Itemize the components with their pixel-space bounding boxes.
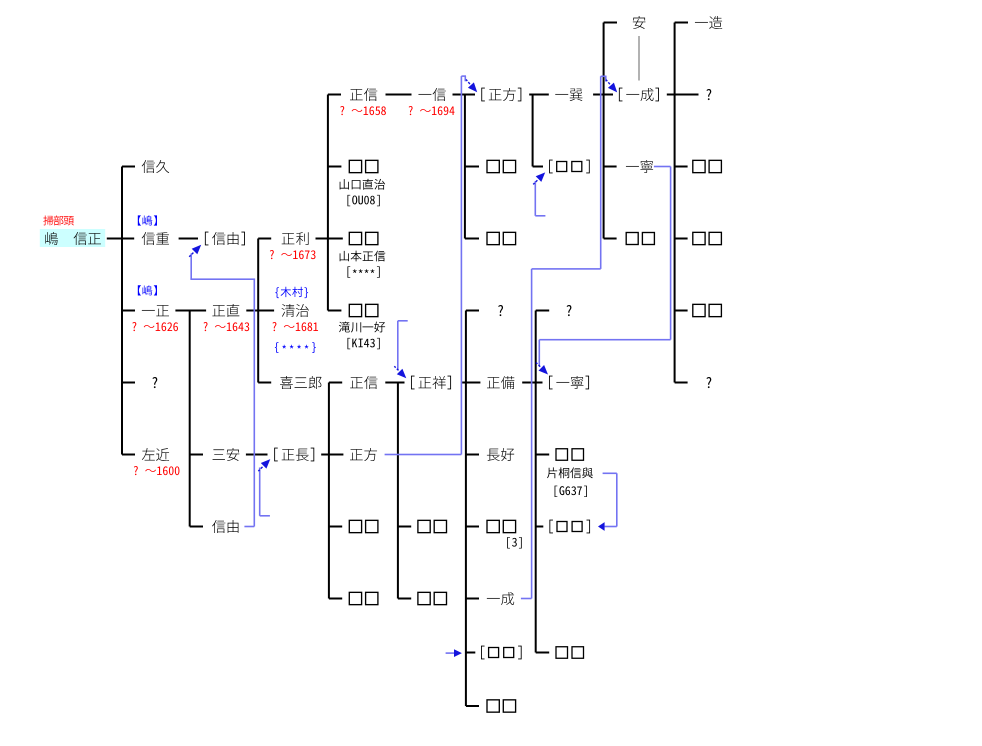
person □□ (c10 C) (693, 160, 705, 172)
tick 安 (604, 22, 617, 24)
person □□ (wife 山本正信) (349, 232, 361, 244)
person 一巽 (555, 93, 568, 96)
adoption link 一成→〔一成〕 stub (521, 598, 532, 600)
adoption link 信由→〔信由〕 stub (244, 526, 254, 528)
tick □□ c5 I (329, 598, 342, 600)
wire 正備-〔一寧〕 (522, 382, 542, 384)
adoption link 片桐→〔□□〕c8H crossbar (605, 526, 617, 528)
code [3] (507, 537, 510, 548)
person 〔正方〕 (adopted) (481, 88, 485, 102)
person 左近 (142, 448, 155, 461)
person □□ (c7 C) (487, 160, 499, 172)
person □□ (c10 D) (693, 232, 705, 244)
wire 一巽-〔一成〕 (593, 94, 613, 96)
person 正備 (487, 377, 500, 388)
tick 正信F (329, 382, 342, 384)
wire 正信-〔正祥〕 (385, 382, 404, 384)
tick 一正 (122, 310, 135, 312)
wire 安-〔一成〕 (gray) (638, 36, 639, 81)
person ? (c2) (152, 377, 157, 388)
tick 〔□□〕C8 (533, 166, 543, 168)
adoption link 一成→〔一成〕 riser (531, 269, 533, 599)
tick 左近 (122, 454, 135, 456)
person □□ (wife 山口直治) (349, 160, 361, 172)
tick □□ c10 E (675, 310, 688, 312)
person 〔一寧〕 (adopted) (549, 376, 553, 390)
code [KI43] (347, 338, 350, 349)
tick 〔□□〕J (466, 652, 475, 654)
adoption link into 〔□□〕c8C riser (535, 181, 537, 216)
wire 正利-□□ (316, 238, 343, 240)
person 信久 (142, 160, 155, 173)
person ? (c8) (567, 305, 572, 316)
wire 〔正長〕-正方 (321, 454, 343, 456)
wire 一正-正直 (175, 310, 206, 312)
person 長好 (487, 449, 500, 461)
person □□ (wife 滝川一好) (349, 304, 361, 316)
adoption arrow into 〔信由〕 (192, 245, 202, 255)
person 一寧 (626, 165, 639, 168)
tick □□ c8 J (536, 652, 550, 654)
sibling bracket V1 (121, 167, 123, 455)
children bracket V5 of 喜三郎 (328, 383, 330, 599)
person 信由 (212, 520, 225, 533)
tick □□ c10 C (675, 166, 688, 168)
children bracket V8 of 〔正祥〕 (465, 311, 467, 707)
person 清治 (282, 304, 295, 317)
date 一信 ?~1694 (red) (409, 106, 413, 115)
tick □□ c7 K (466, 705, 479, 707)
tick 〔□□〕H8 (536, 526, 544, 528)
children bracket V10 of 一巽 (532, 95, 534, 167)
wire 〔正方〕-一巽 (529, 94, 549, 96)
adoption link into 〔□□〕c8C stub (535, 215, 545, 217)
adoption link 正方→〔正方〕 top (461, 75, 466, 77)
adoption link 信由→〔信由〕 riser (254, 280, 256, 527)
person □□ (c6 I) (418, 592, 430, 604)
person □□ (c5 H) (349, 520, 361, 532)
wire 信重-〔信由〕 (179, 238, 198, 240)
date 正直 ?~1643 (red) (204, 322, 208, 331)
date 清治 ?~1681 (red) (272, 322, 276, 331)
person ? (c7) (498, 305, 503, 316)
person □□ (c6 H) (418, 520, 430, 532)
adoption link into 〔正長〕 stub (260, 515, 270, 517)
person 正直 (212, 305, 225, 316)
adoption link 片桐→〔□□〕c8H dropper (616, 473, 618, 526)
person 〔一成〕 (adopted) (619, 88, 623, 102)
label {木村} over 清治 (blue) (275, 287, 279, 298)
person 正信 (gen5 mid) (350, 377, 363, 388)
person 〔信由〕 (adopted) (205, 232, 209, 246)
adoption arrow into 〔一寧〕 (539, 365, 549, 375)
person 喜三郎 (280, 376, 293, 389)
person 嶋 信正 highlight box (40, 229, 105, 247)
adoption link 信由→〔信由〕 riser2 (190, 254, 192, 280)
wire 正信-一信 (386, 94, 412, 96)
adoption link 一寧→〔一寧〕 dropper (670, 167, 672, 340)
code [G637] (555, 486, 558, 497)
children bracket V3 of 〔信由〕 (257, 239, 259, 383)
person □□ (wife 片桐信與) (556, 449, 568, 461)
person □□ (c9 D) (626, 233, 638, 245)
children bracket V6 of 正信 (397, 383, 399, 599)
tick 一成 (466, 598, 479, 600)
date 一正 ?~1626 (red) (132, 322, 136, 331)
person 正信 (gen5 top) (350, 89, 363, 100)
tick ? c8 (536, 310, 550, 312)
adoption link 正方→〔正方〕 riser (461, 76, 463, 454)
tick □□ c7 C (465, 166, 479, 168)
adoption arrow into 〔正長〕 (261, 459, 271, 469)
adoption link 一成→〔一成〕 top (601, 76, 607, 78)
person □□ (c7 D) (487, 232, 499, 244)
person 正方 (350, 449, 363, 460)
tick □□ c10 D (675, 238, 688, 240)
tick □□ c6 H (398, 526, 411, 528)
person □□ (c8 J) (556, 647, 568, 659)
tick □□ c5 H (329, 526, 342, 528)
adoption link 一寧→〔一寧〕 dropper2 (539, 340, 541, 367)
tick 信久 (122, 166, 135, 168)
wire 正直-清治 (246, 310, 274, 312)
person ? (c10 B) (706, 89, 711, 100)
note 山口直治 (340, 179, 349, 189)
tick 喜三郎 (258, 382, 271, 384)
tick □□ c6 I (398, 598, 411, 600)
adoption arrow into 〔□□〕c8C (536, 172, 546, 182)
adoption link into 〔正長〕 riser (259, 468, 261, 516)
children bracket V9 of ? (c7) (535, 311, 537, 653)
wire 〔一成〕-? (667, 94, 699, 96)
person 一信 (418, 93, 431, 96)
person 〔□□〕 (c8 C adopted) (549, 160, 553, 174)
tick □□ c7 D (465, 238, 479, 240)
adoption link 一成→〔一成〕 jog (605, 76, 607, 81)
adoption link 一寧→〔一寧〕 crossbar (539, 339, 670, 341)
adoption arrow into 〔正祥〕 (397, 369, 407, 379)
title 掃部頭 (red) (43, 215, 53, 225)
date 正信 ?~1658 (red) (340, 106, 344, 115)
person 一正 (142, 309, 155, 312)
adoption link 一寧→〔一寧〕 stub (654, 166, 671, 168)
person 信重 (142, 232, 155, 245)
adoption arrow into 〔□□〕c7J (right) (454, 649, 462, 657)
note 片桐信與 (547, 467, 557, 478)
tick 正利 (258, 238, 271, 240)
tick 信由 (190, 526, 203, 528)
tick 正信B (328, 94, 341, 96)
adoption arrow into 〔正方〕 (468, 82, 477, 92)
person □□ (c10 E) (693, 304, 705, 316)
wire 一信-〔正方〕 (453, 94, 476, 96)
adoption link 片桐→〔□□〕c8H stub (603, 473, 617, 475)
person 〔□□〕 (c8 H adopted) (549, 520, 553, 534)
adoption link 一成→〔一成〕 crossbar (532, 268, 601, 270)
children bracket V4 of 正利 (327, 95, 329, 311)
person □□ (c7 H) (487, 520, 499, 532)
adoption link into 〔正祥〕 dropper (397, 321, 399, 370)
person 嶋 信正 name (45, 232, 58, 245)
adoption arrow into 〔□□〕c8H (left) (598, 522, 605, 531)
code [OU08] (347, 195, 350, 206)
wire 信正-信重 (107, 238, 134, 240)
tick ? c7 (466, 310, 479, 312)
note 山本正信 (340, 251, 349, 261)
person □□ (c7 K) (487, 700, 499, 712)
adoption link 信由→〔信由〕 crossbar (190, 278, 255, 280)
tick □□ c5 C (328, 166, 342, 168)
adoption arrow into 〔一成〕 (608, 83, 617, 93)
person □□ (c5 I) (349, 592, 361, 604)
note 滝川一好 (339, 322, 350, 333)
wire 三安-〔正長〕 (246, 454, 268, 456)
date 正利 ?~1673 (red) (270, 250, 274, 259)
wire 〔正祥〕-正備 (462, 382, 480, 384)
person 〔正長〕 (adopted) (274, 448, 278, 462)
person 安 (633, 16, 646, 29)
tick □□ c5 E (328, 310, 342, 312)
person 〔正祥〕 (adopted) (411, 376, 415, 390)
adoption link 正方→〔正方〕 stub (385, 454, 462, 456)
tick □□ c9 D (604, 238, 617, 240)
label 【嶋】 over 一正 (blue) (138, 285, 141, 295)
adoption link into 〔□□〕c7J stub (446, 652, 454, 654)
tick ? c10 F (675, 382, 688, 384)
person 〔□□〕 (c7 J adopted) (481, 646, 485, 660)
adoption link into 〔正祥〕 stub (398, 320, 408, 322)
children bracket V12 of 〔一成〕 (674, 23, 676, 383)
label 【嶋】 over 信重 (blue) (138, 215, 141, 225)
tick □□ c7 H (466, 526, 479, 528)
children bracket V7 of 一信 (464, 95, 466, 239)
person 一造 (695, 21, 708, 24)
children bracket V2 of 一正 (189, 311, 191, 527)
person 三安 (213, 449, 225, 459)
adoption link 正方→〔正方〕 jog (465, 76, 467, 81)
person ? (c10 F) (706, 377, 711, 388)
tick 三安 (190, 454, 203, 456)
date 左近 ?~1600 (red) (134, 466, 138, 475)
tick ? c2 (122, 382, 135, 384)
tick 一寧 (604, 166, 617, 168)
person 一成 (487, 597, 500, 600)
tick 長好 (466, 454, 479, 456)
person 正利 (282, 233, 295, 244)
children bracket V11 of 一巽upper (603, 23, 605, 239)
tick 一造 (675, 22, 688, 24)
tick □□ c8 G (536, 454, 550, 456)
adoption link 一成→〔一成〕 riser2 (600, 76, 602, 269)
